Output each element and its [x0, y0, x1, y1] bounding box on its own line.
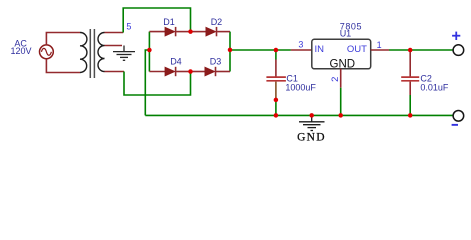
- svg-text:U1: U1: [340, 28, 352, 38]
- bridge left edge wire: [148, 32, 150, 72]
- wire DC minus to bottom rail: [145, 50, 149, 115]
- svg-text:IN: IN: [315, 44, 325, 55]
- svg-text:D3: D3: [210, 56, 222, 66]
- regulator U1 box: [312, 39, 371, 69]
- wire DC plus to regulator input: [230, 49, 291, 51]
- svg-text:1000uF: 1000uF: [285, 83, 316, 93]
- junction C1 top: [274, 48, 279, 53]
- C1 labels: [285, 73, 316, 92]
- junction C2 rail: [408, 113, 413, 118]
- transformer core: [90, 29, 94, 78]
- wire C1 bottom to rail: [275, 100, 277, 115]
- svg-text:GND: GND: [297, 132, 326, 144]
- svg-text:0.01uF: 0.01uF: [420, 83, 449, 93]
- minus label: [452, 124, 458, 126]
- junction GND rail: [309, 113, 314, 118]
- svg-text:GND: GND: [330, 59, 356, 71]
- diode D2: [191, 27, 231, 36]
- svg-text:D2: D2: [211, 17, 223, 27]
- secondary top lead: [105, 32, 124, 34]
- output terminal plus: [453, 45, 464, 56]
- secondary bottom lead: [105, 71, 125, 73]
- regulator input pin lead: [291, 49, 312, 51]
- wire secondary bottom to bridge bottom node: [124, 72, 191, 96]
- junction regulator GND rail: [338, 113, 343, 118]
- bottom rail wire: [145, 114, 453, 116]
- wire regulator GND to rail: [340, 88, 342, 116]
- wire AC top to primary: [46, 33, 80, 45]
- capacitor C1: [266, 60, 286, 101]
- svg-text:D4: D4: [170, 56, 182, 66]
- regulator GND pin lead: [340, 69, 342, 88]
- regulator U1 labels: [315, 21, 368, 70]
- svg-text:3: 3: [298, 40, 303, 50]
- transformer T1 secondary coil: [98, 33, 105, 72]
- wire C1 top stub: [275, 50, 277, 60]
- AC source V1: [40, 45, 54, 59]
- junction C2 top: [408, 48, 413, 53]
- diode D4: [149, 67, 190, 76]
- wire AC bottom to primary: [46, 59, 80, 73]
- secondary center tap lead: [105, 45, 123, 47]
- C2 labels: [420, 73, 449, 92]
- bridge right edge wire: [229, 32, 231, 72]
- diode D3: [191, 67, 231, 76]
- junction DC minus node: [147, 48, 152, 53]
- junction C1 rail: [274, 113, 279, 118]
- capacitor C2: [401, 50, 419, 95]
- svg-text:D1: D1: [163, 17, 175, 27]
- wire regulator output to terminal: [389, 49, 453, 51]
- output terminal minus: [453, 111, 464, 122]
- diode D1: [149, 27, 190, 36]
- svg-text:2: 2: [330, 77, 341, 82]
- regulator output pin lead: [371, 49, 389, 51]
- junction top AC node: [188, 29, 193, 33]
- wire C2 bottom to rail: [409, 95, 411, 115]
- svg-text:120V: 120V: [10, 46, 31, 56]
- junction DC plus node: [228, 48, 233, 53]
- ground GND net symbol: [299, 115, 325, 130]
- transformer T1 primary coil: [80, 32, 87, 72]
- ground at transformer center tap: [113, 46, 135, 61]
- svg-text:1: 1: [377, 40, 382, 50]
- junction C1 pin bottom: [274, 98, 279, 103]
- svg-text:5: 5: [126, 22, 131, 32]
- junction bottom AC node: [188, 69, 193, 74]
- wire secondary top to bridge top node: [123, 8, 190, 33]
- plus label: [452, 32, 460, 40]
- svg-text:OUT: OUT: [347, 44, 367, 55]
- AC source label: [10, 38, 31, 56]
